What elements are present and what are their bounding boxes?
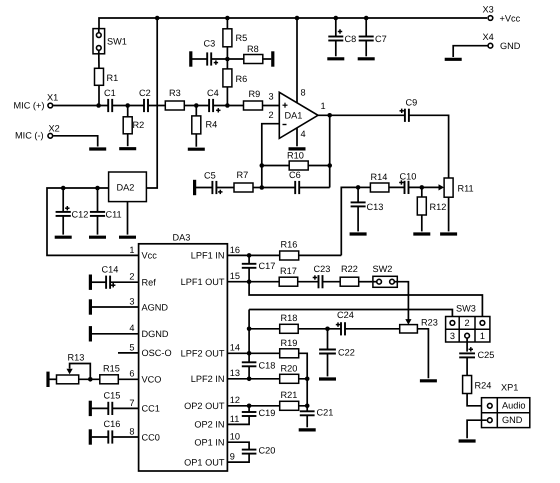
- wire R4 to ground: [195, 134, 197, 147]
- svg-text:R15: R15: [103, 364, 120, 374]
- wire gnd to C5: [196, 187, 212, 189]
- svg-text:C6: C6: [289, 170, 301, 180]
- wire C4 to R9: [213, 105, 244, 107]
- svg-text:1: 1: [480, 331, 485, 341]
- terminal X3 +Vcc: [483, 5, 521, 24]
- capacitor C13: [351, 187, 384, 231]
- ground C11: [89, 236, 106, 239]
- svg-text:GND: GND: [500, 41, 521, 51]
- wire R8 to ground: [263, 58, 272, 60]
- wire XP1 GND: [467, 420, 487, 438]
- resistor R3: [165, 88, 184, 110]
- svg-text:SW2: SW2: [373, 264, 393, 274]
- wire R1 to mic line: [98, 85, 100, 105]
- ground DA1 pin4: [289, 147, 306, 150]
- ic DA2: [109, 172, 147, 202]
- capacitor C9: [400, 98, 418, 122]
- ground DGND: [89, 326, 92, 341]
- wire R19 to column: [299, 353, 308, 406]
- resistor R24: [463, 376, 492, 394]
- node bias junction: [225, 57, 230, 62]
- wire R15 to pin6: [118, 378, 138, 380]
- wire LPF1IN net vertical: [341, 187, 358, 255]
- node mic junction R1: [96, 103, 101, 108]
- wire C13 to R14: [358, 186, 370, 188]
- svg-text:R3: R3: [169, 88, 181, 98]
- potentiometer R23: [400, 317, 438, 333]
- ground C12: [55, 236, 72, 239]
- wire C24 to R23: [345, 328, 400, 330]
- svg-text:7: 7: [129, 398, 134, 408]
- wire R13 to R15: [79, 378, 100, 380]
- svg-text:LPF1 OUT: LPF1 OUT: [181, 277, 225, 287]
- capacitor C8: [328, 18, 356, 56]
- svg-text:R24: R24: [475, 380, 492, 390]
- svg-text:C7: C7: [375, 34, 387, 44]
- svg-text:AGND: AGND: [142, 302, 169, 312]
- svg-text:R14: R14: [371, 172, 388, 182]
- svg-text:DA1: DA1: [285, 111, 303, 121]
- capacitor C21: [300, 406, 334, 428]
- svg-text:C2: C2: [139, 88, 151, 98]
- svg-text:Audio: Audio: [502, 401, 526, 411]
- wire C3 to junction: [211, 58, 227, 60]
- svg-text:R21: R21: [281, 390, 298, 400]
- svg-text:C8: C8: [345, 34, 357, 44]
- svg-text:1: 1: [129, 245, 134, 255]
- svg-text:+Vcc: +Vcc: [500, 14, 521, 24]
- wire OSC-O stub pin5: [118, 352, 139, 354]
- wire gnd to C16: [92, 436, 109, 438]
- svg-text:R11: R11: [458, 184, 474, 194]
- svg-text:CC0: CC0: [142, 432, 160, 442]
- svg-text:C4: C4: [207, 88, 219, 98]
- wire C5 to R7: [216, 187, 234, 189]
- svg-text:GND: GND: [502, 415, 523, 425]
- svg-text:R5: R5: [236, 33, 248, 43]
- capacitor C5: [204, 170, 223, 194]
- svg-text:R7: R7: [237, 170, 249, 180]
- svg-text:C21: C21: [317, 407, 334, 417]
- resistor R22: [340, 264, 359, 286]
- wire X1 to C1: [53, 105, 108, 107]
- capacitor C24: [336, 310, 354, 335]
- wire gnd to C15: [92, 407, 109, 409]
- resistor R9: [244, 89, 263, 110]
- wire R7 to feedback: [253, 187, 262, 189]
- svg-text:SW3: SW3: [456, 303, 476, 313]
- terminal X1 MIC(+): [14, 93, 59, 111]
- resistor R10: [287, 150, 308, 170]
- wire SW2 to R23 wiper: [397, 282, 411, 325]
- ground C5 (left): [193, 180, 196, 195]
- svg-text:C14: C14: [102, 265, 119, 275]
- ground AGND: [89, 299, 92, 314]
- node C12 C11 taps: [61, 186, 100, 191]
- capacitor C16: [104, 419, 121, 443]
- svg-text:X1: X1: [47, 93, 58, 103]
- switch SW1: [93, 29, 127, 54]
- ground R4: [188, 148, 205, 151]
- svg-text:R18: R18: [281, 313, 298, 323]
- node pin15 tap: [247, 279, 252, 284]
- svg-text:OP2 IN: OP2 IN: [194, 420, 224, 430]
- pin 3 label: [269, 92, 274, 102]
- wire C25 to R24: [466, 357, 468, 375]
- svg-text:OSC-O: OSC-O: [142, 348, 172, 358]
- svg-text:16: 16: [230, 245, 240, 255]
- wire R17 to C23: [298, 281, 319, 283]
- resistor R19: [280, 338, 299, 358]
- capacitor C19: [227, 406, 275, 425]
- node R18 tap: [247, 327, 252, 332]
- svg-text:C1: C1: [104, 88, 116, 98]
- pin 8 DA1: [297, 18, 306, 103]
- resistor R8: [244, 44, 263, 64]
- capacitor C6: [289, 170, 301, 194]
- svg-text:11: 11: [230, 414, 240, 424]
- switch SW2: [373, 264, 398, 288]
- svg-text:C13: C13: [367, 202, 384, 212]
- capacitor C10: [399, 171, 416, 194]
- ground R8 (right): [271, 51, 274, 66]
- wire R3 to C4: [184, 105, 209, 107]
- resistor R2: [123, 106, 144, 134]
- resistor R12: [417, 187, 446, 215]
- wire X2 to ground: [53, 136, 97, 147]
- resistor R20: [280, 364, 299, 384]
- svg-text:CC1: CC1: [142, 404, 160, 414]
- svg-text:LPF2 IN: LPF2 IN: [191, 374, 225, 384]
- DA3 pin labels: [129, 245, 240, 468]
- svg-text:8: 8: [301, 88, 306, 98]
- wire C1 to C2: [112, 105, 144, 107]
- wire output to C6: [329, 115, 331, 187]
- wire LPF2OUT to SW3: [249, 310, 452, 321]
- svg-text:C5: C5: [204, 170, 216, 180]
- svg-text:LPF2 OUT: LPF2 OUT: [181, 349, 225, 359]
- resistor R1: [95, 68, 119, 85]
- svg-text:OP1 OUT: OP1 OUT: [184, 457, 225, 467]
- ground C3 (left): [189, 51, 192, 66]
- svg-text:R13: R13: [68, 353, 85, 363]
- ground C8: [327, 57, 344, 60]
- terminal X4 GND: [483, 32, 521, 51]
- ground C13: [350, 232, 367, 235]
- svg-text:3: 3: [129, 296, 134, 306]
- node pin16 tap: [247, 253, 252, 258]
- capacitor C12: [56, 188, 89, 235]
- svg-text:2: 2: [269, 110, 274, 120]
- node rail junctions: [155, 16, 369, 21]
- resistor R18: [280, 313, 299, 333]
- svg-text:C9: C9: [406, 98, 418, 108]
- node DA1 output: [327, 113, 332, 168]
- wire top +Vcc rail: [99, 18, 487, 28]
- wire pin14 row: [227, 352, 279, 354]
- node feedback left: [260, 163, 265, 190]
- pin 1 label: [321, 101, 326, 111]
- pin 2 label: [269, 110, 274, 120]
- wire C15 to pin7: [112, 407, 138, 409]
- wire C6 row: [262, 187, 330, 189]
- wire DA2 output: [47, 188, 139, 255]
- wire pin12 row: [227, 405, 307, 407]
- resistor R7: [234, 170, 253, 192]
- svg-text:1: 1: [321, 101, 326, 111]
- ground C7: [358, 57, 375, 60]
- resistor R14: [370, 172, 389, 192]
- wire pin15 row: [227, 281, 279, 283]
- wire R6 to mic line: [226, 87, 228, 106]
- wire DGND pin4: [92, 333, 139, 335]
- svg-text:DA3: DA3: [173, 232, 191, 242]
- wire R18 row: [249, 328, 280, 330]
- capacitor C22: [319, 329, 355, 377]
- ic DA3: [139, 232, 228, 471]
- ground C22: [319, 377, 336, 380]
- svg-text:R10: R10: [287, 150, 304, 160]
- capacitor C17: [242, 255, 276, 281]
- wiper arrow R11: [439, 184, 445, 190]
- svg-text:R23: R23: [421, 317, 438, 327]
- svg-text:C18: C18: [259, 361, 276, 371]
- wire R5 to R6: [226, 47, 228, 69]
- capacitor C20: [242, 446, 276, 456]
- ground R2: [119, 147, 136, 150]
- wire C9 to R11: [409, 115, 449, 178]
- svg-text:R4: R4: [206, 120, 218, 130]
- node R13 wiper tap: [88, 377, 93, 382]
- capacitor C2: [139, 88, 151, 112]
- resistor R17: [279, 266, 298, 286]
- wire R10 right: [308, 165, 330, 167]
- wire C14 to pin2: [110, 281, 139, 283]
- svg-text:15: 15: [230, 271, 240, 281]
- wire pin16 row: [227, 254, 279, 256]
- svg-text:C15: C15: [104, 391, 121, 401]
- svg-text:LPF1 IN: LPF1 IN: [191, 251, 225, 261]
- capacitor C4: [207, 88, 221, 112]
- svg-text:C12: C12: [72, 209, 89, 219]
- svg-text:DGND: DGND: [142, 329, 169, 339]
- wire R11 to ground: [448, 197, 450, 231]
- ground R23: [420, 379, 437, 382]
- svg-text:2: 2: [465, 318, 470, 328]
- node mic junction R6: [225, 103, 230, 108]
- svg-text:X4: X4: [483, 32, 494, 42]
- svg-text:4: 4: [301, 129, 306, 139]
- svg-text:R17: R17: [280, 266, 297, 276]
- svg-text:DA2: DA2: [117, 183, 135, 193]
- node pin12 taps: [247, 404, 310, 409]
- svg-text:R1: R1: [107, 73, 119, 83]
- node mic junction R4: [194, 103, 199, 108]
- wire R23 to ground: [417, 329, 428, 378]
- svg-text:C10: C10: [400, 171, 417, 181]
- wire pin10 to C20: [227, 442, 249, 449]
- ground DA2: [119, 236, 136, 239]
- capacitor C15: [104, 391, 121, 415]
- svg-text:X2: X2: [49, 123, 60, 133]
- wire LPF1OUT to SW3: [249, 282, 482, 320]
- wire X4 to ground: [453, 46, 487, 57]
- wiper R13: [67, 364, 91, 380]
- svg-text:9: 9: [230, 452, 235, 462]
- svg-text:C23: C23: [314, 264, 331, 274]
- svg-text:14: 14: [230, 343, 240, 353]
- wire R18 to C24: [298, 328, 341, 330]
- ground C16 (left): [89, 429, 92, 444]
- wire DA1 inverting input: [262, 124, 280, 188]
- ground X2: [89, 147, 106, 150]
- svg-text:MIC (-): MIC (-): [15, 131, 44, 141]
- wire R22 to SW2: [359, 281, 373, 283]
- wire R2 to ground: [127, 134, 129, 146]
- capacitor C7: [359, 18, 387, 56]
- svg-text:R19: R19: [281, 338, 298, 348]
- potentiometer R13: [57, 353, 85, 384]
- svg-text:6: 6: [129, 369, 134, 379]
- svg-text:4: 4: [129, 323, 134, 333]
- wire R24 to XP1: [467, 394, 487, 406]
- wire R9 to pin3: [263, 105, 280, 107]
- wire R12 to ground: [421, 215, 423, 231]
- svg-text:OP1 IN: OP1 IN: [194, 438, 224, 448]
- svg-text:R8: R8: [247, 44, 259, 54]
- op-amp DA1: [279, 92, 318, 138]
- svg-text:C25: C25: [478, 350, 495, 360]
- pin 4 DA1: [297, 128, 306, 147]
- svg-text:XP1: XP1: [501, 383, 518, 393]
- wire gnd to C3: [192, 58, 207, 60]
- svg-text:3: 3: [269, 92, 274, 102]
- node R12 top: [420, 185, 425, 190]
- svg-text:R9: R9: [249, 89, 261, 99]
- connector XP1: [482, 383, 530, 428]
- resistor R6: [223, 69, 247, 87]
- svg-text:SW1: SW1: [107, 36, 127, 46]
- capacitor C3: [204, 38, 219, 65]
- node pin14 tap: [247, 351, 252, 356]
- svg-text:X3: X3: [483, 5, 494, 15]
- wire gnd to R13: [50, 378, 57, 380]
- ground XP1: [459, 439, 476, 442]
- wire DA1 output: [318, 114, 405, 116]
- wire gnd to C14: [92, 281, 106, 283]
- switch SW3: [446, 303, 490, 342]
- svg-text:R12: R12: [430, 202, 447, 212]
- resistor R15: [100, 364, 120, 384]
- svg-text:2: 2: [129, 272, 134, 282]
- capacitor C14: [102, 265, 119, 289]
- capacitor C25: [459, 347, 494, 360]
- svg-text:10: 10: [230, 432, 240, 442]
- svg-text:R6: R6: [236, 74, 248, 84]
- svg-text:C17: C17: [259, 261, 276, 271]
- node C13 top: [356, 185, 361, 190]
- wire SW1 to R1: [98, 54, 100, 69]
- svg-text:C22: C22: [338, 347, 355, 357]
- capacitor C11: [90, 188, 122, 235]
- svg-text:MIC (+): MIC (+): [14, 100, 45, 110]
- svg-text:3: 3: [450, 331, 455, 341]
- wire DA2 ground pin: [127, 202, 129, 235]
- node pin13 taps: [247, 377, 310, 382]
- svg-text:R20: R20: [281, 364, 298, 374]
- wire SW3 to C25: [466, 339, 468, 352]
- svg-text:12: 12: [230, 395, 240, 405]
- wire R14 to C10: [389, 186, 405, 188]
- capacitor C1: [104, 88, 116, 112]
- wire rail to DA2: [146, 18, 157, 188]
- wire pin13 row: [227, 378, 307, 380]
- svg-text:C20: C20: [259, 446, 276, 456]
- wire R16 to LPF1IN net: [299, 254, 342, 256]
- ground R12: [413, 232, 430, 235]
- wire C16 to pin8: [112, 436, 138, 438]
- resistor R5: [223, 18, 247, 47]
- ground R11: [440, 232, 457, 235]
- svg-text:8: 8: [129, 426, 134, 436]
- capacitor C23: [313, 264, 331, 289]
- resistor R4: [192, 106, 217, 134]
- svg-text:Ref: Ref: [142, 278, 157, 288]
- potentiometer R11: [444, 178, 474, 197]
- svg-text:13: 13: [230, 368, 240, 378]
- capacitor C18: [242, 353, 276, 379]
- svg-text:VCO: VCO: [142, 375, 162, 385]
- wire C2 to R3: [148, 105, 165, 107]
- svg-text:Vcc: Vcc: [142, 251, 158, 261]
- ground R13 (left): [46, 372, 49, 387]
- wire R10 left: [262, 165, 289, 167]
- node mic junction R2: [125, 103, 130, 108]
- wire AGND pin3: [92, 306, 139, 308]
- svg-text:R16: R16: [281, 240, 298, 250]
- svg-text:C16: C16: [104, 419, 121, 429]
- ground C14 (left): [89, 275, 92, 290]
- terminal X2 MIC(-): [15, 123, 60, 140]
- svg-text:R2: R2: [133, 120, 145, 130]
- wire C23 to R22: [322, 281, 340, 283]
- ground X4: [445, 58, 462, 61]
- svg-text:C19: C19: [259, 408, 276, 418]
- wire LPF2OUT vertical: [248, 310, 250, 354]
- resistor R21: [280, 390, 299, 410]
- svg-text:5: 5: [129, 342, 134, 352]
- svg-text:C3: C3: [204, 38, 216, 48]
- svg-text:C24: C24: [337, 310, 354, 320]
- node C22 top: [325, 327, 330, 332]
- ground C21: [299, 428, 316, 431]
- svg-text:OP2 OUT: OP2 OUT: [184, 401, 225, 411]
- ground C15 (left): [89, 401, 92, 416]
- svg-text:C11: C11: [106, 209, 122, 219]
- wire C10 to R11 wiper: [409, 186, 439, 188]
- svg-text:R22: R22: [341, 264, 358, 274]
- resistor R16: [280, 240, 299, 260]
- wire junction to R8: [227, 58, 243, 60]
- wire C20 to pin9: [227, 454, 249, 463]
